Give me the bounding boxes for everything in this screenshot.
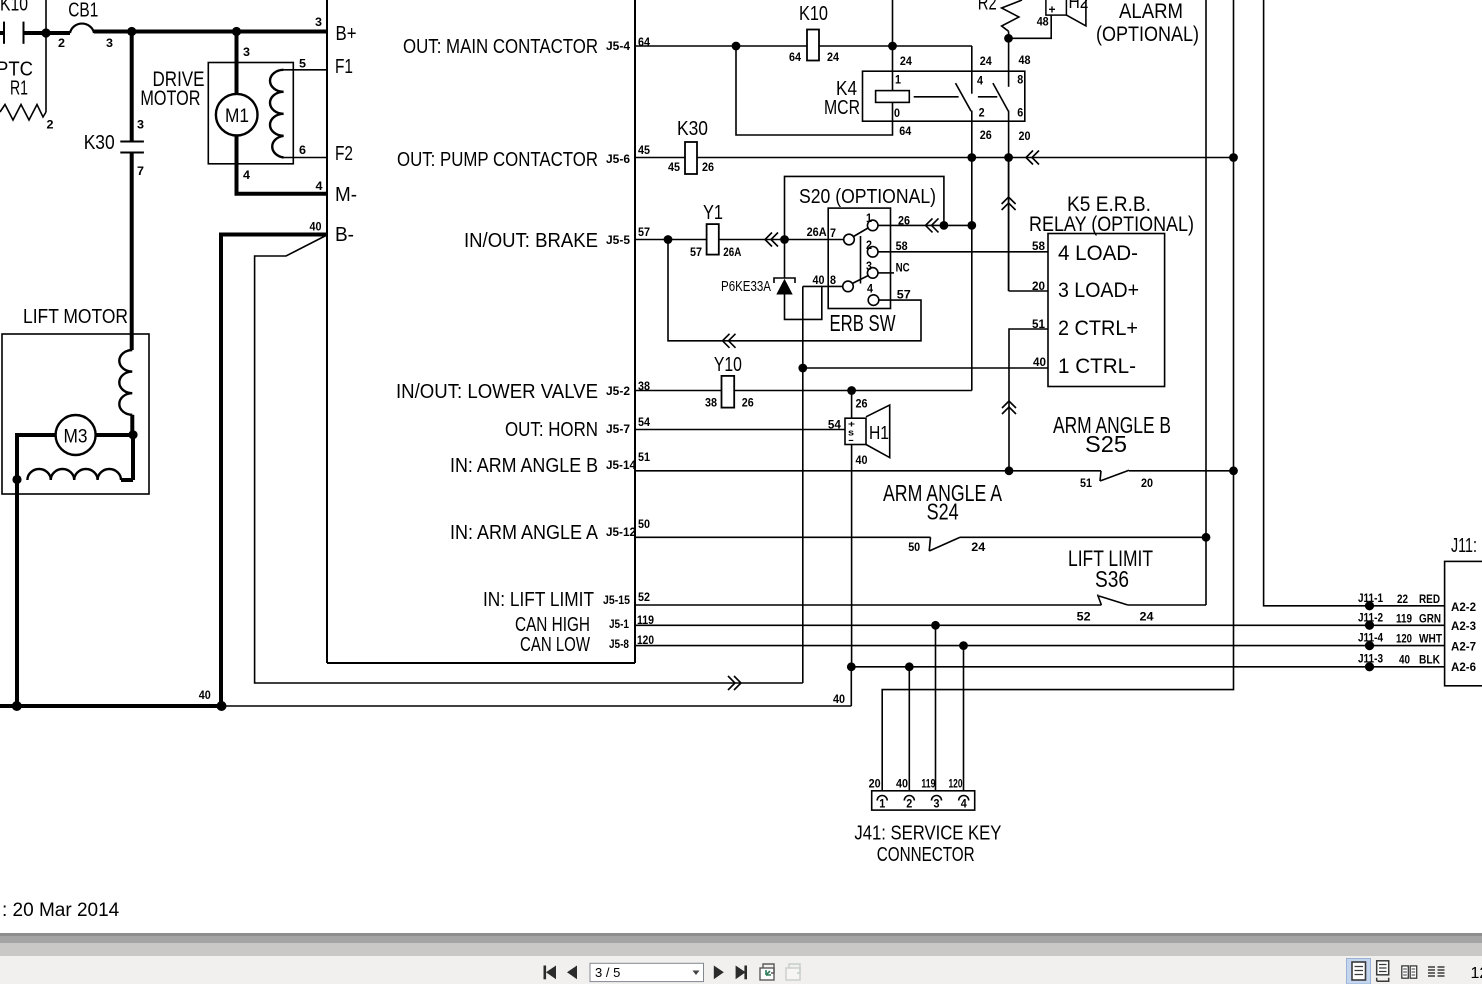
toolbar background [0,933,1482,984]
wire M3 right (thick) [96,433,133,437]
wire net 52 row (lift limit) [635,604,1101,606]
svg-text:58: 58 [896,239,908,253]
svg-text:GRN: GRN [1419,612,1441,626]
svg-text:40: 40 [856,453,868,467]
svg-text:B+: B+ [336,23,357,45]
S20 optional box [785,176,944,239]
node junction dot [967,221,976,230]
wire B- (net 40 thick) [221,235,327,707]
svg-text:2: 2 [906,797,912,811]
svg-text:64: 64 [899,124,911,138]
chevron break on B- branch [728,676,741,690]
svg-text:26A: 26A [807,225,827,239]
svg-text:A2-3: A2-3 [1451,619,1476,633]
svg-text:22: 22 [1397,592,1408,606]
svg-text:50: 50 [908,540,920,554]
svg-text:8: 8 [830,273,836,287]
svg-text:Y1: Y1 [703,202,723,224]
lift motor series coil (horizontal) [27,469,121,480]
svg-text:OUT: MAIN CONTACTOR: OUT: MAIN CONTACTOR [403,36,598,58]
svg-text:6: 6 [299,143,306,157]
J11 wire labels row4 [1358,652,1440,672]
svg-text:6: 6 [1017,106,1023,120]
svg-text:24: 24 [827,50,839,64]
svg-text:MCR: MCR [824,97,860,119]
chevron break on net 20 vertical [1002,197,1016,210]
connector J11 [1445,535,1482,686]
node junction dot [888,42,897,51]
node junction dot [905,662,914,671]
node junction dot [1005,466,1014,475]
J5 connector edge [634,0,636,663]
svg-text:64: 64 [638,35,650,49]
wire K5 pin3 [1009,290,1048,292]
node junction dot [959,641,968,650]
resistor R1 (PTC) [0,59,54,132]
svg-text:J5-14: J5-14 [606,458,636,472]
contactor K30 [84,132,144,154]
node junction dot [732,42,741,51]
svg-text:26A: 26A [723,245,741,259]
wire net 26 (pin 1) [878,224,972,226]
relay coil Y1 [690,202,742,259]
svg-text:2: 2 [979,106,985,120]
wire net 24 (lift limit out) [1128,604,1206,606]
wire net 20 (arm angle B out) [1129,470,1234,472]
wire net 57 loop (pin 4) [668,240,921,341]
svg-text:A2-6: A2-6 [1451,660,1476,674]
svg-text:1: 1 [895,73,901,87]
svg-text:3 / 5: 3 / 5 [595,965,620,980]
svg-text:2: 2 [866,238,872,252]
svg-text:CAN HIGH: CAN HIGH [515,614,590,636]
svg-text:A2-2: A2-2 [1451,600,1476,614]
wire K5 pin2 to S25 [1009,329,1048,471]
node M3 right junction [128,430,137,439]
svg-text:20: 20 [1032,279,1045,293]
svg-text:+: + [1049,3,1056,17]
svg-text:RELAY (OPTIONAL): RELAY (OPTIONAL) [1029,213,1194,236]
toolbar first-page button [544,966,557,980]
wire B+ (net 3) [94,30,327,34]
K4 coil [876,91,910,103]
svg-text:26: 26 [898,214,910,228]
wire K30 drop (net 3) [130,32,134,142]
svg-text:20: 20 [1019,129,1031,143]
svg-text:ERB SW: ERB SW [830,310,896,336]
toolbar next-page button [714,966,724,980]
svg-text:57: 57 [690,245,702,259]
wire M1 to M- (net 4) [237,136,328,194]
svg-text:8: 8 [1017,73,1023,87]
node junction dot [1004,153,1013,162]
wire net 54 row (horn) [635,429,845,431]
wire net 24 (arm angle A out) [960,536,1207,538]
svg-text:54: 54 [638,415,650,429]
svg-text:J5-7: J5-7 [606,422,630,436]
svg-text:R1: R1 [10,77,28,99]
node junction dot at M1 drop [232,27,241,36]
lift motor armature coil (vertical) [119,350,132,415]
relay coil Y10 [705,354,754,410]
svg-text:52: 52 [638,590,650,604]
svg-text:4: 4 [316,179,323,193]
layout single-page icon (selected) [1347,959,1371,984]
node junction dot [967,153,976,162]
motor M3 [56,415,96,455]
svg-text:40: 40 [833,692,845,706]
svg-text:OUT: HORN: OUT: HORN [505,419,598,441]
svg-text:4: 4 [867,282,873,296]
wire NC stub (pin 3) [878,272,894,274]
wire F1 [284,69,327,71]
svg-text:S25: S25 [1085,431,1127,457]
svg-text:M1: M1 [225,106,249,127]
svg-text:2 CTRL+: 2 CTRL+ [1058,317,1138,340]
svg-text:24: 24 [980,54,992,68]
svg-text:CAN LOW: CAN LOW [520,634,590,656]
node junction dot (net 48) [1004,34,1013,43]
alarm H2 (cut off at top) [1046,0,1089,26]
svg-text:LIFT MOTOR: LIFT MOTOR [23,306,128,328]
svg-text:7: 7 [830,226,836,240]
svg-text:-: - [848,435,854,445]
drive motor box [208,63,293,164]
wire K5 pin1 (net 40) [803,367,1048,369]
lift motor box [2,334,149,494]
ERB switch box [828,208,890,308]
svg-text:51: 51 [1032,317,1045,331]
svg-text:40: 40 [199,688,211,702]
chevron break on net 26A [765,233,778,247]
svg-text:J5-1: J5-1 [609,617,629,631]
switch S24 [883,480,1003,554]
node junction dot [1202,533,1211,542]
svg-text:40: 40 [310,220,322,234]
svg-text:J5-12: J5-12 [606,525,636,539]
wire net 120 row (CAN low) [635,645,1445,647]
wire B- branch diagonal (net 40 thin) [255,236,803,684]
svg-text:J5-6: J5-6 [606,152,630,166]
relay K5 vertical (net 20) with chevrons [1008,158,1010,292]
wire net 119 row (CAN high) [635,624,1445,626]
wire K4 coil return (net 64) [736,46,893,135]
svg-text:57: 57 [897,287,911,301]
svg-text:3: 3 [934,797,940,811]
contact K10 (top-left, cut off) [0,0,70,44]
relay K5 E.R.B. box [1029,193,1194,387]
svg-text:120: 120 [949,777,963,791]
resistor R2 [978,0,1022,31]
relay coil K10 [789,3,839,64]
svg-text:40: 40 [1033,355,1046,369]
layout facing icon [1402,966,1417,978]
svg-text:7: 7 [137,164,144,178]
connector J41 [872,791,975,811]
svg-text:Y10: Y10 [714,354,742,376]
svg-text:3 LOAD+: 3 LOAD+ [1058,279,1139,302]
wire pin 8 (net 40) [803,285,843,287]
chevron break on net 57 loop [723,334,736,348]
wire net 40 elbow at J41 [850,667,852,706]
svg-text:4: 4 [977,73,983,87]
svg-text:F2: F2 [335,143,353,165]
wire net 45/20 row [635,157,1234,159]
svg-text:52: 52 [1077,610,1091,624]
svg-text:3: 3 [137,118,144,132]
svg-text:ALARM: ALARM [1119,0,1183,23]
circuit breaker CB1 [68,0,98,33]
ERB SW contacts [830,211,879,305]
chevron break on net 26 [926,218,939,232]
long vertical net 22 (x=1206) [1205,0,1207,605]
wire J41 pin2 (net 40) [908,667,910,791]
K4 linkage dash [914,96,959,98]
long vertical net 26 (x=1263.6) [1264,0,1445,606]
svg-text:26: 26 [856,397,868,411]
relay K4 MCR box [863,71,1025,121]
svg-text:RED: RED [1419,592,1440,606]
svg-text:J5-15: J5-15 [603,593,630,607]
svg-text:3: 3 [106,36,113,50]
svg-text:20: 20 [1141,476,1153,490]
terminal bus (B+ F1 F2 M- B-) [326,0,328,663]
svg-text:119: 119 [1396,612,1412,626]
wire junction down to series coil [131,435,135,480]
wire F2 [284,157,327,159]
svg-text:R2: R2 [978,0,997,15]
svg-text:119: 119 [921,777,935,791]
node lift motor left junction [12,475,21,484]
long vertical net 20 (x=1233.5) [882,0,1233,791]
layout continuous icon [1377,961,1389,982]
svg-text:45: 45 [638,143,650,157]
motor M1 [216,94,258,136]
svg-text:3: 3 [315,15,322,29]
node junction dot (horn tap) [847,386,856,395]
wire to alarm H2 [1009,15,1052,38]
node junction dot [12,701,22,711]
wire series coil right elbow [121,478,133,482]
svg-text:K30: K30 [677,118,708,140]
svg-text:5: 5 [299,56,306,70]
svg-text:40: 40 [813,273,825,287]
wire net 51 row (arm angle B) [635,470,1101,472]
K4 linkage dash 2 [978,96,997,98]
node junction dot (CTRL- tap) [798,364,807,373]
wire net 58 (pin 2 to K5) [878,251,1048,253]
svg-text:S24: S24 [927,499,959,525]
svg-text:F1: F1 [335,56,353,78]
svg-text:J11:: J11: [1451,535,1477,557]
svg-text:BLK: BLK [1419,653,1440,667]
svg-text:1 CTRL-: 1 CTRL- [1058,355,1136,378]
toolbar page combo box [590,963,704,981]
node junction dot [1229,153,1238,162]
svg-text:: 20 Mar 2014: : 20 Mar 2014 [2,900,120,921]
svg-text:3: 3 [866,259,872,273]
svg-text:(OPTIONAL): (OPTIONAL) [1096,23,1199,46]
node junction dot [664,235,673,244]
svg-text:S36: S36 [1095,566,1129,592]
node junction dot [931,621,940,630]
svg-text:P6KE33A: P6KE33A [721,279,771,295]
node junction dot [940,221,949,230]
node junction dot [847,662,856,671]
node junction dot at K30 drop [127,27,136,36]
svg-text:2: 2 [47,118,54,132]
wire net 40 thin run to J41 area [222,705,851,707]
wire net 40 vertical drop [802,286,804,683]
svg-text:26: 26 [742,395,754,409]
wire K4 coil feed (net 24 from top) [892,0,894,91]
svg-text:IN: ARM ANGLE B: IN: ARM ANGLE B [450,455,598,477]
svg-text:48: 48 [1019,53,1031,67]
svg-text:3: 3 [243,45,250,59]
diode P6KE33A [721,240,822,320]
J11 wire labels row2 [1358,611,1441,630]
svg-text:20: 20 [869,777,881,791]
svg-text:H2: H2 [1069,0,1089,12]
svg-text:51: 51 [638,450,650,464]
node junction dot [217,701,227,711]
svg-text:0: 0 [894,106,900,120]
drive motor field coil [270,70,284,158]
svg-text:38: 38 [705,395,717,409]
svg-text:4 LOAD-: 4 LOAD- [1058,242,1138,265]
svg-text:J41: SERVICE KEY: J41: SERVICE KEY [854,823,1001,845]
wire net 38/26 row (lower valve) [635,390,972,392]
wire net 40 bottom (thick) [0,704,222,708]
svg-text:50: 50 [638,517,650,531]
svg-text:A2-7: A2-7 [1451,640,1476,654]
svg-text:24: 24 [900,54,912,68]
switch S25 [1053,412,1171,490]
toolbar next-view icon (disabled) [786,964,800,980]
svg-text:IN/OUT: LOWER VALVE: IN/OUT: LOWER VALVE [396,381,598,403]
svg-text:CONNECTOR: CONNECTOR [877,844,975,866]
svg-text:1: 1 [866,211,872,225]
svg-text:64: 64 [789,50,801,64]
toolbar last-page button [736,966,747,980]
svg-text:2: 2 [58,36,65,50]
svg-text:54: 54 [828,418,841,432]
K4 contact 1 (pins 4-2) [956,46,985,391]
svg-text:57: 57 [638,225,650,239]
wire M1 drop (net 3) [235,32,239,96]
wire net 50 row (arm angle A) [635,536,931,538]
toolbar previous-view icon [760,964,774,980]
switch S36 [1068,546,1154,624]
svg-text:M-: M- [335,184,357,206]
svg-text:40: 40 [1399,653,1410,667]
svg-text:M3: M3 [64,427,88,448]
svg-text:K10: K10 [799,3,828,25]
node 2 junction dot [41,28,50,37]
svg-text:NC: NC [896,261,910,275]
K4 contact 2 (pins 8-6) [993,31,1024,291]
chevron break on net 20 [1026,151,1039,165]
svg-text:26: 26 [702,160,714,174]
svg-text:120: 120 [1396,632,1412,646]
wire net 40 row to J11 (BLK) [851,666,1444,668]
svg-text:4: 4 [243,168,250,182]
svg-text:48: 48 [1037,14,1049,28]
svg-text:IN/OUT: BRAKE: IN/OUT: BRAKE [464,230,598,252]
wire net 57/26A row (brake) [635,239,844,241]
svg-text:J5-2: J5-2 [606,384,630,398]
svg-text:58: 58 [1032,239,1045,253]
svg-text:K10: K10 [0,0,28,16]
node junction dot (pin 7 node) [780,235,789,244]
J11 wire labels row1 [1358,591,1440,610]
wire J41 pin3 (net 119) [935,625,937,791]
chevron break on CTRL+ vertical [1002,401,1016,414]
node junction dot [1229,466,1238,475]
layout continuous-facing icon [1427,965,1444,980]
wire coil to junction [130,415,134,435]
svg-text:OUT: PUMP CONTACTOR: OUT: PUMP CONTACTOR [397,149,598,171]
toolbar prev-page button [567,966,577,980]
svg-text:J5-8: J5-8 [609,637,629,651]
svg-text:24: 24 [971,540,985,554]
J11 wire labels row3 [1358,631,1443,651]
svg-text:MOTOR: MOTOR [140,87,200,110]
wire horn feed [851,391,853,419]
wire net 64/24 row [635,45,972,47]
wire M3 left leg (thick) [17,435,56,706]
svg-text:12: 12 [1471,965,1482,982]
svg-text:J5-4: J5-4 [606,39,630,53]
svg-text:K30: K30 [84,132,115,154]
svg-text:S20 (OPTIONAL): S20 (OPTIONAL) [799,186,936,208]
svg-text:40: 40 [896,777,908,791]
svg-text:24: 24 [1140,610,1154,624]
wire K30 to lift motor (net 7) [130,153,134,350]
svg-text:J5-5: J5-5 [606,233,630,247]
svg-text:4: 4 [961,797,967,811]
svg-text:CB1: CB1 [68,0,98,21]
svg-text:51: 51 [1080,476,1092,490]
wire J41 pin4 (net 120) [963,646,965,791]
horn H1 [845,405,890,458]
svg-text:IN: ARM ANGLE A: IN: ARM ANGLE A [450,522,599,544]
svg-text:26: 26 [980,128,992,142]
connector box bottom edge [327,662,635,664]
wire net 2 (vertical to R1) [45,0,47,112]
svg-text:IN: LIFT LIMIT: IN: LIFT LIMIT [483,589,594,611]
wire H1 negative to net 40 [851,445,853,667]
svg-text:B-: B- [335,224,354,246]
svg-text:WHT: WHT [1419,632,1443,646]
relay coil K30 [668,118,714,174]
svg-text:H1: H1 [869,423,889,443]
svg-text:45: 45 [668,160,680,174]
svg-text:1: 1 [879,797,885,811]
